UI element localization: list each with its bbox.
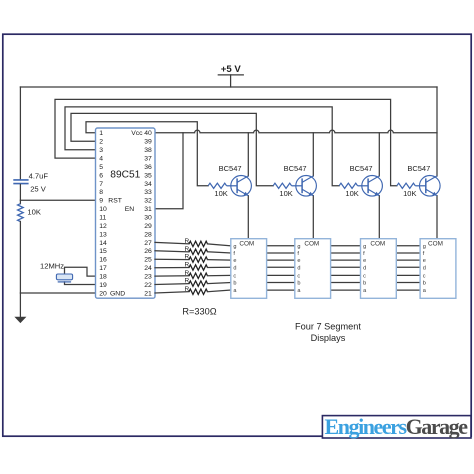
svg-text:2: 2 xyxy=(99,139,103,146)
wire P1.2 pin3 to Q3 base rail xyxy=(65,107,339,186)
svg-text:18: 18 xyxy=(99,274,107,281)
svg-text:e: e xyxy=(233,258,236,264)
svg-text:COM: COM xyxy=(428,241,443,248)
wire segment net g from pin27 xyxy=(155,242,189,244)
wire display1 to display2 net f xyxy=(267,252,295,254)
svg-text:b: b xyxy=(423,281,426,287)
wire Q3 collector lead xyxy=(378,133,380,176)
svg-text:37: 37 xyxy=(144,156,152,163)
svg-text:12: 12 xyxy=(99,223,107,230)
wire segment net e from pin25 xyxy=(155,258,189,260)
resistor base 10K Q4 xyxy=(397,183,416,188)
7-segment display DS1 xyxy=(231,239,267,299)
wire display3 to display4 net f xyxy=(396,252,420,254)
svg-text:RST: RST xyxy=(108,198,122,205)
svg-text:20: 20 xyxy=(99,290,107,297)
7-segment display DS3 xyxy=(361,239,397,299)
7-segment display DS4 xyxy=(420,239,456,299)
wire display3 to display4 net c xyxy=(396,274,420,276)
svg-text:d: d xyxy=(297,265,300,271)
svg-text:e: e xyxy=(423,258,426,264)
wire pin20 GND to left rail xyxy=(20,292,95,294)
svg-text:8: 8 xyxy=(99,189,103,196)
svg-text:d: d xyxy=(233,265,236,271)
wire Q3 emitter to display COM xyxy=(378,196,380,239)
svg-text:11: 11 xyxy=(99,215,106,222)
svg-text:28: 28 xyxy=(144,231,152,238)
svg-text:22: 22 xyxy=(144,282,152,289)
wire Q2 emitter to display COM xyxy=(312,196,314,239)
svg-text:b: b xyxy=(363,281,366,287)
wire +5V drop to Q4 collector xyxy=(436,87,438,176)
svg-text:BC547: BC547 xyxy=(350,164,373,173)
transistor Q1 BC547 xyxy=(231,176,252,197)
wire resistor to display1 xyxy=(208,283,231,284)
resistor R2 10K vertical xyxy=(18,204,24,222)
resistor R 330ohm net d xyxy=(189,265,207,270)
svg-text:b: b xyxy=(233,281,236,287)
wire P1.1 pin2 to Q2 base rail xyxy=(71,113,273,185)
wire resistor to display1 xyxy=(208,266,231,268)
wire P1.0 pin1 to Q1 base rail xyxy=(86,122,208,186)
svg-text:17: 17 xyxy=(99,265,107,272)
wire display3 to display4 net g xyxy=(396,245,420,247)
svg-text:R: R xyxy=(185,262,190,269)
svg-text:27: 27 xyxy=(144,240,152,247)
svg-text:10K: 10K xyxy=(279,189,292,198)
svg-text:EngineersGarage: EngineersGarage xyxy=(325,414,469,439)
svg-text:GND: GND xyxy=(110,290,125,297)
svg-text:c: c xyxy=(363,274,366,280)
svg-text:COM: COM xyxy=(239,241,254,248)
svg-text:1: 1 xyxy=(99,130,103,137)
svg-text:BC547: BC547 xyxy=(407,164,430,173)
resistor base 10K Q2 xyxy=(273,183,292,188)
svg-text:13: 13 xyxy=(99,231,107,238)
svg-text:Four 7 Segment: Four 7 Segment xyxy=(295,321,361,331)
svg-text:c: c xyxy=(423,274,426,280)
svg-text:d: d xyxy=(423,265,426,271)
wire Q4 emitter to display COM xyxy=(436,196,438,239)
svg-text:e: e xyxy=(363,258,366,264)
svg-text:35: 35 xyxy=(144,172,152,179)
svg-text:19: 19 xyxy=(99,282,107,289)
wire resistor to display1 xyxy=(208,259,231,262)
wire EA/EN pin31 tie-high xyxy=(155,133,183,209)
svg-text:e: e xyxy=(297,258,300,264)
wire Q1 collector lead xyxy=(247,133,249,176)
svg-text:7: 7 xyxy=(99,181,103,188)
wire 10K to ground xyxy=(19,222,21,318)
wire display3 to display4 net d xyxy=(396,266,420,268)
svg-text:25 V: 25 V xyxy=(30,184,47,193)
wire left vertical from rail to capacitor xyxy=(19,87,21,179)
op IC U1 89C51 xyxy=(96,128,156,298)
svg-text:36: 36 xyxy=(144,164,152,171)
wire segment net c from pin23 xyxy=(155,275,189,277)
wire Q1 emitter to display COM xyxy=(247,196,249,239)
wire display3 to display4 net b xyxy=(396,282,420,284)
svg-text:R: R xyxy=(185,246,190,253)
wire segment net b from pin22 xyxy=(155,283,189,286)
svg-text:BC547: BC547 xyxy=(284,164,307,173)
svg-text:34: 34 xyxy=(144,181,152,188)
svg-text:10K: 10K xyxy=(345,189,358,198)
svg-text:10K: 10K xyxy=(403,189,416,198)
resistor R 330ohm net e xyxy=(189,257,207,262)
wire display2 to display3 net g xyxy=(331,245,361,247)
transistor Q2 BC547 xyxy=(296,176,317,197)
svg-text:R: R xyxy=(185,286,190,293)
svg-text:33: 33 xyxy=(144,189,152,196)
wire display3 to display4 net a xyxy=(396,289,420,291)
wire resistor to display1 xyxy=(208,244,231,246)
svg-text:15: 15 xyxy=(99,248,107,255)
resistor base 10K Q3 xyxy=(339,183,358,188)
wire resistor to display1 xyxy=(208,290,231,292)
svg-text:6: 6 xyxy=(99,172,103,179)
wire display1 to display2 net c xyxy=(267,274,295,276)
svg-text:g: g xyxy=(297,244,300,250)
wire +5V rail xyxy=(20,86,437,88)
svg-text:38: 38 xyxy=(144,147,152,154)
svg-text:EN: EN xyxy=(125,206,135,213)
svg-text:R: R xyxy=(185,254,190,261)
svg-text:30: 30 xyxy=(144,215,152,222)
svg-text:+5 V: +5 V xyxy=(221,64,242,75)
wire Vcc pin40 line with hops xyxy=(155,130,437,133)
svg-text:COM: COM xyxy=(304,241,319,248)
7-segment display DS2 xyxy=(295,239,331,299)
svg-text:Displays: Displays xyxy=(311,333,346,343)
transistor Q4 BC547 xyxy=(420,176,441,197)
svg-text:c: c xyxy=(233,274,236,280)
wire crystal top to pin18 xyxy=(65,267,96,276)
wire resistor to display1 xyxy=(208,274,231,276)
wire resistor to display1 xyxy=(208,252,231,253)
wire Q2 collector lead xyxy=(312,133,314,176)
svg-text:14: 14 xyxy=(99,240,107,247)
svg-text:10K: 10K xyxy=(27,208,41,217)
wire display2 to display3 net f xyxy=(331,252,361,254)
svg-text:4.7uF: 4.7uF xyxy=(29,172,49,181)
svg-text:d: d xyxy=(363,265,366,271)
wire capacitor to RST node xyxy=(19,185,21,204)
svg-text:32: 32 xyxy=(144,198,152,205)
wire segment net a from pin21 xyxy=(155,292,189,293)
svg-text:29: 29 xyxy=(144,223,152,230)
svg-text:9: 9 xyxy=(99,198,103,205)
resistor R 330ohm net f xyxy=(189,249,207,254)
svg-text:12MHz: 12MHz xyxy=(40,261,64,270)
svg-text:10K: 10K xyxy=(214,189,227,198)
svg-text:21: 21 xyxy=(144,290,152,297)
wire display1 to display2 net g xyxy=(267,245,295,247)
svg-text:5: 5 xyxy=(99,164,103,171)
wire display2 to display3 net e xyxy=(331,259,361,261)
svg-text:b: b xyxy=(297,281,300,287)
crystal X1 12MHz xyxy=(56,274,72,280)
svg-text:R: R xyxy=(185,238,190,245)
svg-text:25: 25 xyxy=(144,257,152,264)
svg-text:g: g xyxy=(233,244,236,250)
wire display2 to display3 net b xyxy=(331,282,361,284)
svg-text:g: g xyxy=(363,244,366,250)
transistor Q3 BC547 xyxy=(362,176,383,197)
svg-text:R=330Ω: R=330Ω xyxy=(182,306,216,316)
ground symbol xyxy=(15,317,25,322)
svg-text:23: 23 xyxy=(144,274,152,281)
capacitor C1 4.7uF plates xyxy=(13,180,28,184)
svg-text:31: 31 xyxy=(144,206,152,213)
svg-text:BC547: BC547 xyxy=(219,164,242,173)
wire display1 to display2 net d xyxy=(267,266,295,268)
wire display1 to display2 net b xyxy=(267,282,295,284)
svg-text:16: 16 xyxy=(99,257,107,264)
wire crystal bottom to pin19 xyxy=(65,282,96,285)
svg-text:40: 40 xyxy=(144,130,152,137)
svg-text:c: c xyxy=(297,274,300,280)
resistor R 330ohm net a xyxy=(189,289,207,294)
wire display1 to display2 net e xyxy=(267,259,295,261)
wire segment net d from pin24 xyxy=(155,267,189,269)
wire P1.3 pin4 to Q4 base rail xyxy=(55,99,397,185)
wire display1 to display2 net a xyxy=(267,289,295,291)
resistor R 330ohm net c xyxy=(189,273,207,278)
wire display2 to display3 net a xyxy=(331,289,361,291)
resistor R 330ohm net b xyxy=(189,281,207,286)
svg-text:39: 39 xyxy=(144,139,152,146)
svg-text:26: 26 xyxy=(144,248,152,255)
wire display3 to display4 net e xyxy=(396,259,420,261)
svg-text:R: R xyxy=(185,278,190,285)
svg-text:24: 24 xyxy=(144,265,152,272)
svg-text:4: 4 xyxy=(99,156,103,163)
svg-text:Vcc: Vcc xyxy=(131,130,143,137)
svg-text:R: R xyxy=(185,270,190,277)
resistor base 10K Q1 xyxy=(208,183,227,188)
wire display2 to display3 net d xyxy=(331,266,361,268)
wire segment net f from pin26 xyxy=(155,251,189,252)
svg-text:10: 10 xyxy=(99,206,107,213)
svg-text:89C51: 89C51 xyxy=(110,170,140,181)
resistor R 330ohm net g xyxy=(189,241,207,246)
EngineersGarage logo xyxy=(322,416,471,438)
wire RST node to pin9 xyxy=(20,199,95,201)
svg-text:3: 3 xyxy=(99,147,103,154)
svg-text:g: g xyxy=(423,244,426,250)
svg-text:COM: COM xyxy=(370,241,385,248)
wire +5V tick to rail xyxy=(230,75,232,87)
wire display2 to display3 net c xyxy=(331,274,361,276)
